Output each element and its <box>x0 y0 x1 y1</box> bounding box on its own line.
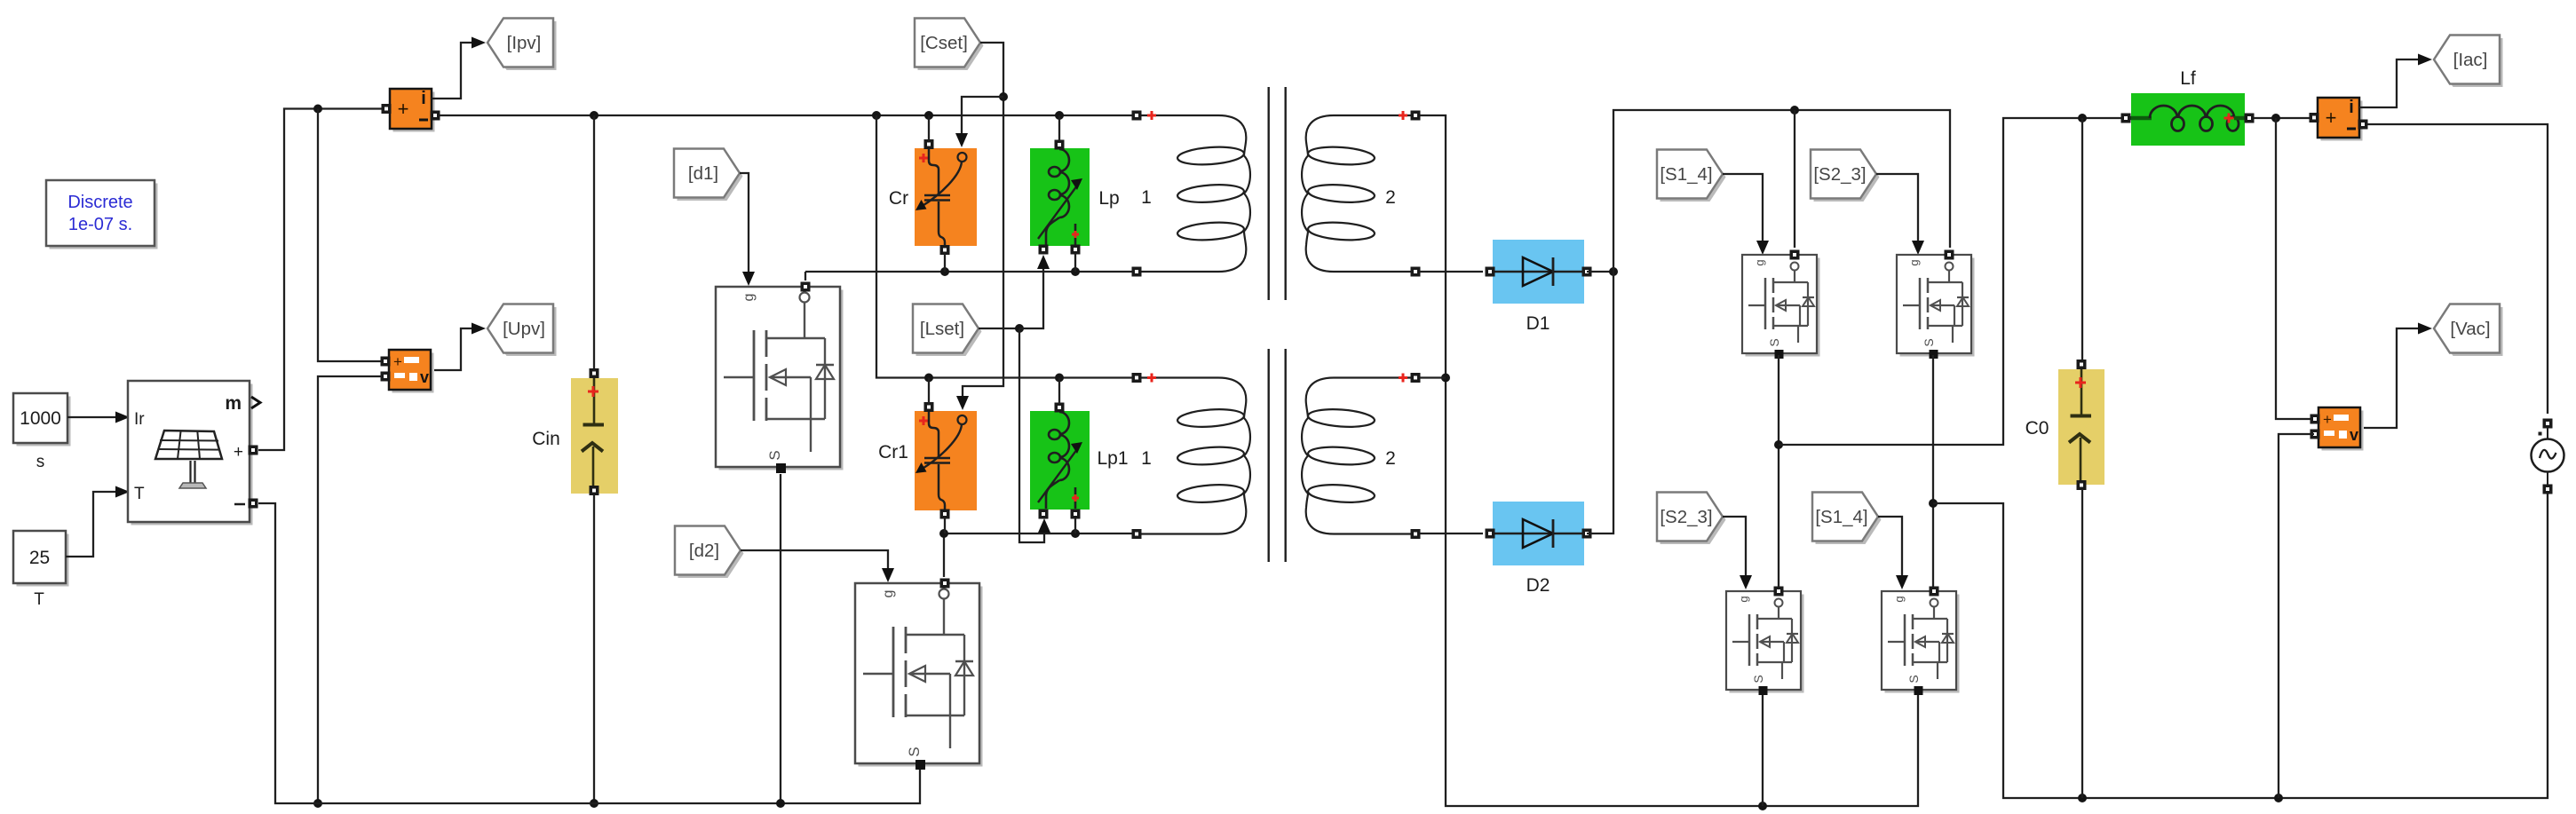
wire i to Ipv tag <box>432 37 486 99</box>
svg-text:[S1_4]: [S1_4] <box>1815 507 1867 527</box>
diode D1 <box>1486 240 1592 304</box>
from tag [Lset] <box>913 304 982 357</box>
wire right leg to AC return <box>1933 492 2548 798</box>
voltage measurement Upv <box>381 350 434 393</box>
from tag [S2_3] lower <box>1657 493 1726 545</box>
svg-text:[Ipv]: [Ipv] <box>507 33 542 53</box>
variable inductor Lp1 <box>1030 403 1090 519</box>
wire i to Iac tag <box>2359 54 2432 108</box>
node left leg mid <box>1774 440 1783 449</box>
wire Cin bottom <box>593 494 595 803</box>
wire Lp top <box>1058 115 1060 141</box>
label T2 secondary 2 <box>1385 448 1396 469</box>
svg-text:Cr: Cr <box>889 188 908 209</box>
goto tag [Ipv] <box>487 19 557 71</box>
label D1 <box>1526 313 1550 334</box>
svg-text:g: g <box>1737 596 1750 602</box>
wire W2 T1 primary low side <box>805 271 1133 273</box>
wire Lp1 top <box>1058 378 1060 405</box>
label Lp1 ratio 1 <box>1141 448 1152 469</box>
svg-text:1000: 1000 <box>20 408 61 429</box>
wire 1000 to Ir <box>67 412 130 423</box>
wire Lf out <box>2254 117 2310 119</box>
MOSFET S4 block <box>1882 587 1960 696</box>
svg-text:g: g <box>1907 259 1921 265</box>
svg-text:Lp1: Lp1 <box>1097 448 1128 469</box>
svg-text:[S2_3]: [S2_3] <box>1660 507 1712 527</box>
node W1-down <box>872 111 881 120</box>
label D2 <box>1526 575 1550 596</box>
svg-text:2: 2 <box>1385 448 1396 469</box>
node W2-Cr <box>940 267 949 276</box>
svg-text:[S1_4]: [S1_4] <box>1660 164 1712 185</box>
wire M1 drain to W2 <box>805 272 806 281</box>
node Cset branch <box>999 92 1008 101</box>
wire v to Vac tag <box>2364 323 2432 429</box>
node W1-Cin <box>590 111 598 120</box>
svg-text:g: g <box>1753 259 1766 265</box>
svg-text:S: S <box>1767 338 1781 346</box>
wire S2_3 to M4 gate <box>1876 174 1924 255</box>
node W1-Cr <box>924 111 933 120</box>
MOSFET S1 block <box>1742 250 1820 360</box>
wire C0 top <box>2081 118 2083 360</box>
svg-text:v: v <box>420 368 429 386</box>
goto tag [Iac] <box>2434 36 2503 88</box>
node voltmeter - on rail <box>313 799 322 808</box>
node right leg mid <box>1929 499 1938 508</box>
svg-text:[Vac]: [Vac] <box>2450 319 2490 339</box>
wire Cr1 bottom <box>944 518 946 533</box>
label Lp1 <box>1097 448 1128 469</box>
svg-text:S: S <box>766 450 783 460</box>
MOSFET Mos block <box>716 282 844 474</box>
from tag [d2] <box>675 526 744 579</box>
wire Lset to Lp <box>1019 255 1050 328</box>
T1 primary polarity + <box>1147 111 1156 120</box>
svg-text:Cr1: Cr1 <box>878 442 908 462</box>
node center tap T2 <box>1441 374 1450 383</box>
label Lp <box>1098 188 1119 209</box>
wire D1 out <box>1587 271 1613 273</box>
T2 secondary polarity + <box>1399 374 1407 383</box>
svg-text:Lp: Lp <box>1098 188 1119 209</box>
node C0 bottom <box>2078 794 2087 802</box>
wire S1_4 to M6 gate <box>1878 517 1908 589</box>
label T1 secondary 2 <box>1385 187 1396 208</box>
svg-text:+: + <box>2323 411 2332 428</box>
node M1 source on rail <box>776 799 785 808</box>
wire Lset stub <box>979 328 1019 329</box>
svg-text:[Cset]: [Cset] <box>920 33 968 53</box>
svg-text:S: S <box>1922 338 1936 346</box>
svg-text:C0: C0 <box>2025 418 2049 439</box>
wire voltmeter - down <box>318 376 382 803</box>
current measurement Iac <box>2310 98 2368 141</box>
svg-text:T: T <box>34 590 44 609</box>
label Cin <box>532 429 560 449</box>
svg-text:Lf: Lf <box>2180 68 2196 89</box>
from tag [S1_4] upper <box>1657 150 1726 202</box>
svg-text:2: 2 <box>1385 187 1396 208</box>
goto tag [Upv] <box>487 304 557 357</box>
svg-text:m: m <box>225 393 242 414</box>
svg-text:+: + <box>2326 107 2337 129</box>
wire Lp bottom <box>1074 253 1076 272</box>
svg-text:T: T <box>134 485 145 503</box>
wire T2 sec top stub <box>1420 376 1446 378</box>
wire S2_3 to M5 gate <box>1723 517 1752 589</box>
node C0 top tap <box>2078 114 2087 122</box>
goto tag [Vac] <box>2434 304 2503 357</box>
T1 secondary polarity + <box>1399 111 1407 120</box>
wire T2 sec to D2 <box>1420 533 1483 534</box>
wire Vac minus drop <box>2279 434 2314 798</box>
capacitor C0 <box>2058 360 2104 490</box>
svg-text:+: + <box>398 98 409 120</box>
svg-text:S: S <box>1751 675 1765 683</box>
svg-text:25: 25 <box>29 548 50 568</box>
transformer T2 primary winding <box>1132 373 1250 539</box>
wire W1 DC+ rail <box>439 115 1133 116</box>
label Lp ratio 1 <box>1141 187 1152 208</box>
svg-text:[Lset]: [Lset] <box>920 319 964 339</box>
svg-text:g: g <box>1892 596 1906 602</box>
wire Vac plus drop <box>2276 118 2314 419</box>
wire M4 source leg <box>1932 355 1934 587</box>
wire d2 to gate <box>741 550 894 582</box>
svg-text:[d2]: [d2] <box>689 541 719 561</box>
node Lset branch <box>1015 324 1024 333</box>
from tag [S2_3] upper <box>1811 150 1880 202</box>
wire M1 source to rail <box>780 474 781 803</box>
svg-text:1: 1 <box>1141 187 1152 208</box>
wire Cset main <box>956 43 1003 410</box>
svg-text:Discrete: Discrete <box>67 193 132 212</box>
node W4-Lp1 <box>1071 529 1080 538</box>
wire center tap return <box>1420 115 1918 806</box>
wire M3 source leg <box>1778 355 1779 587</box>
wire PV+ to current meter <box>258 109 382 451</box>
svg-text:[Upv]: [Upv] <box>503 319 545 339</box>
node W2-Lp <box>1071 267 1080 276</box>
wire Cin top <box>593 115 595 368</box>
node PV+ tap <box>313 105 322 114</box>
annotation Discrete sample time box <box>46 180 158 249</box>
wire 25 to T <box>66 486 130 557</box>
inductor Lf <box>2121 93 2255 146</box>
wire v to Upv tag <box>434 323 486 371</box>
wire D2 out and DC bus up <box>1587 110 1950 533</box>
svg-text:[S2_3]: [S2_3] <box>1813 164 1866 185</box>
MOSFET Mos1 block <box>855 579 983 771</box>
wire M3 drain riser <box>1794 110 1795 248</box>
PV array block <box>128 381 260 526</box>
node W3-Lp1 <box>1055 374 1064 383</box>
wire W3 DC+ to lower phase <box>876 115 1133 378</box>
wire M5 source <box>1762 690 1764 806</box>
wire left leg to Lf <box>1779 118 2122 445</box>
wire voltmeter + tap <box>318 109 382 362</box>
wire C0 bottom <box>2081 489 2083 798</box>
svg-text:1: 1 <box>1141 448 1152 469</box>
wire Iac minus to AC <box>2367 124 2548 414</box>
wire Lp1 bottom <box>1074 518 1076 533</box>
svg-text:s: s <box>36 453 45 471</box>
wire Lset to Lp1 <box>1019 328 1050 542</box>
wire T1 sec to D1 <box>1420 271 1483 273</box>
wire Cr bottom <box>944 253 946 272</box>
svg-text:v: v <box>2350 426 2358 444</box>
wire Cr top <box>928 115 930 141</box>
MOSFET S2 block <box>1897 250 1975 360</box>
current measurement Ipv <box>382 89 440 132</box>
wire W4 T2 primary low side <box>944 533 1133 534</box>
constant block 1000 (irradiance) <box>13 393 71 471</box>
voltage measurement Vac <box>2310 407 2364 451</box>
node W3-Cr1 <box>924 374 933 383</box>
node bus M3 drain <box>1790 106 1799 115</box>
wire S1_4 to M3 gate <box>1723 174 1769 255</box>
svg-text:+: + <box>234 443 243 462</box>
node M5 source on return <box>1758 802 1767 810</box>
T2 primary polarity + <box>1147 374 1156 383</box>
svg-text:i: i <box>421 89 426 108</box>
node W4-left <box>939 529 948 538</box>
transformer T2 secondary winding <box>1302 373 1420 539</box>
transformer T1 core <box>1269 87 1286 300</box>
transformer T2 core <box>1269 349 1286 562</box>
variable capacitor Cr1 <box>915 402 977 519</box>
svg-text:S: S <box>906 747 923 756</box>
transformer T1 secondary winding <box>1302 111 1420 277</box>
wire Cset to Cr <box>955 97 1003 147</box>
node D1 out <box>1609 267 1618 276</box>
svg-text:1e-07 s.: 1e-07 s. <box>68 215 132 234</box>
variable capacitor Cr <box>915 139 977 255</box>
AC voltage source <box>2532 419 2564 494</box>
node Cin on rail <box>590 799 598 808</box>
MOSFET S3 block <box>1726 587 1804 696</box>
svg-text:Ir: Ir <box>134 410 145 429</box>
from tag [d1] <box>674 149 743 202</box>
diode D2 <box>1486 502 1592 565</box>
label Cr1 <box>878 442 908 462</box>
svg-text:D1: D1 <box>1526 313 1550 334</box>
svg-text:i: i <box>2349 98 2354 117</box>
constant block 25 (temperature) <box>13 531 69 609</box>
wire Cr1 top <box>928 378 930 405</box>
transformer T1 primary winding <box>1132 111 1250 277</box>
svg-text:Cin: Cin <box>532 429 560 449</box>
svg-text:[Iac]: [Iac] <box>2453 50 2488 70</box>
label Cr <box>889 188 908 209</box>
node Vac minus on return <box>2274 794 2283 802</box>
node Vac plus tap <box>2271 114 2280 122</box>
node W1-Lp <box>1055 111 1064 120</box>
from tag [S1_4] lower <box>1812 493 1882 545</box>
svg-text:g: g <box>881 590 896 598</box>
wire d1 to gate <box>740 173 755 286</box>
from tag [Cset] <box>915 19 984 71</box>
wire M2 drain to W4 <box>943 533 945 577</box>
variable inductor Lp <box>1030 140 1090 255</box>
svg-text:g: g <box>741 294 757 302</box>
wire PV- bottom rail <box>258 503 920 803</box>
capacitor Cin <box>571 368 618 495</box>
svg-text:[d1]: [d1] <box>688 163 718 184</box>
svg-text:+: + <box>393 353 402 370</box>
svg-text:D2: D2 <box>1526 575 1550 596</box>
label C0 <box>2025 418 2049 439</box>
label Lf <box>2180 68 2196 89</box>
svg-text:S: S <box>1906 675 1921 683</box>
